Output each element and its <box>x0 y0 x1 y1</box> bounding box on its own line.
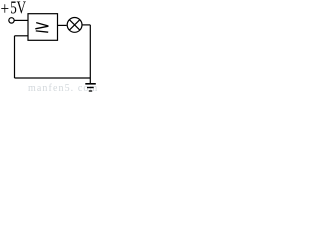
svg-text:+: + <box>1 0 10 19</box>
svg-text:manfen5. com: manfen5. com <box>28 83 98 94</box>
svg-text:5V: 5V <box>10 0 26 18</box>
